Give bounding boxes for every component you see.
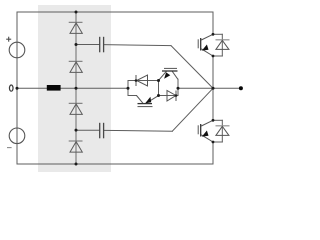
wire C1 diagonal to output [171,46,213,89]
node bottom pair upper [212,119,215,122]
label - of V2 [7,147,12,149]
wire bidi left riser [127,81,129,96]
node string / 0-line [75,87,78,90]
wire bottom bus [17,163,213,165]
shaded clamp region [38,5,111,172]
node D5 cathode [135,79,138,82]
wire top bus [17,11,213,13]
wire neutral 0-line [17,87,128,89]
wire C1 left lead [76,44,100,46]
arrow of Q2 [164,72,170,78]
wire bidi bottom branch right [159,95,179,97]
wire bidi right riser [177,79,179,95]
wire bidi top branch [128,80,159,82]
wire top pair upper stub [213,33,222,35]
diode D3 [69,103,83,114]
neutral impedance block (black) [47,85,61,91]
source V1 (top DC source) [9,42,25,58]
wire C2 left lead [76,129,100,131]
wire top pair lower stub [213,55,222,57]
IGBT Q4 (bottom right switch) [198,120,213,142]
IGBT Q1 (bidi bottom-left) [137,96,159,107]
node string / C1 [75,43,78,46]
node bidi mid bottom [157,94,160,97]
wire bottom pair diode leg [221,120,223,142]
capacitor C1 [100,37,104,53]
wire bidi mid link [158,81,160,96]
wire right rail upper [212,12,214,34]
node bidi output [177,87,180,90]
wire diode-string vertical [75,12,77,164]
node bottom pair lower [212,141,215,144]
diode D8 (antiparallel of Q4) [216,126,230,136]
node phase junction [212,87,215,90]
label node 0 [9,85,13,91]
node bidi mid top [157,79,160,82]
diode D4 [69,141,83,152]
wire top pair diode leg [221,34,223,56]
diode D1 [69,22,83,33]
arrow of Q3 [202,45,209,51]
wire right rail lower [212,142,214,164]
diode D2 [69,61,83,72]
node top bus / string [75,11,78,14]
IGBT Q3 (top right switch) [198,34,213,56]
wire bottom pair lower stub [213,141,222,143]
wire right rail middle [212,56,214,120]
wire C1 right lead [104,45,171,46]
node 0 / left rail [16,87,19,90]
arrow of Q4 [202,131,209,137]
node string / C2 [75,129,78,132]
source V2 (bottom DC source) [9,128,25,144]
capacitor C2 [100,123,104,139]
output terminal dot [239,86,243,90]
wire bidi bottom branch [128,95,137,97]
arrow of Q1 [145,97,151,104]
node string / bottom bus [75,163,78,166]
node top pair upper [212,33,215,36]
diode D6 (bidi bottom-right, points right) [167,91,176,102]
wire output line [178,87,239,89]
IGBT Q2 (bidi top-right) [159,68,179,80]
diode D7 (antiparallel of Q3) [216,40,230,50]
wire left rail [16,12,18,164]
node top pair lower [212,55,215,58]
wire bottom pair upper stub [213,119,222,121]
diode D5 (bidi top-left, points left) [136,75,148,86]
node D6 cathode [175,94,178,97]
node bidi input [127,87,130,90]
label + of V1 [6,37,11,42]
wire C2 right lead [104,129,173,132]
wire C2 diagonal to output [172,88,213,131]
